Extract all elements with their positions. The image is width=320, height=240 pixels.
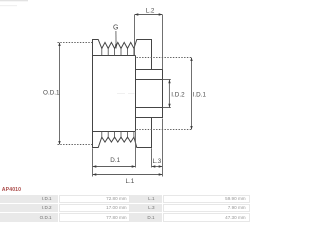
groove root line top	[93, 55, 136, 57]
L.2 dimension	[135, 15, 163, 70]
G leader arrow	[115, 31, 117, 49]
technical drawing svg	[0, 0, 250, 190]
svg-text:O.D.1: O.D.1	[43, 90, 60, 97]
groove root line bottom	[93, 131, 136, 133]
O.D.1 dimension	[58, 43, 93, 145]
D.1 dimension	[93, 132, 136, 177]
cropped artifact top-left	[0, 0, 28, 1]
part number	[2, 187, 21, 193]
row 3	[0, 213, 58, 222]
L.1 dimension	[93, 119, 163, 177]
bore socket bottom	[136, 107, 163, 109]
L.3 dimension	[152, 148, 163, 167]
svg-text:I.D.1: I.D.1	[193, 91, 207, 98]
svg-text:L.3: L.3	[153, 158, 162, 165]
back face internal line	[135, 56, 137, 132]
bore socket top	[136, 79, 163, 81]
svg-text:D.1: D.1	[110, 157, 120, 164]
svg-text:G: G	[113, 24, 118, 31]
svg-text:L.1: L.1	[126, 178, 135, 185]
svg-text:L.2: L.2	[146, 8, 155, 15]
centerline (axis)	[117, 93, 135, 95]
valley ticks bottom	[102, 132, 134, 138]
hub shelf bottom	[136, 117, 163, 119]
I.D.2 dimension	[168, 79, 170, 108]
valley ticks top	[102, 48, 134, 55]
I.D.1 dimension	[137, 58, 192, 130]
row 2	[0, 204, 58, 212]
pulley outer profile (cross-section)	[93, 40, 163, 148]
hub shelf top	[136, 69, 163, 71]
svg-text:I.D.2: I.D.2	[171, 91, 185, 98]
row 1	[0, 195, 58, 203]
